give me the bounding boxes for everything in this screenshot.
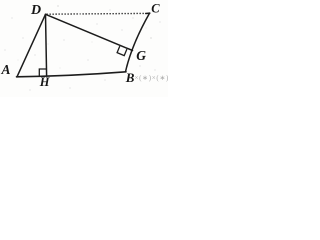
wire: side BC (right, through G) [126,13,150,72]
wire: scan speckle noise [5,5,161,90]
wire: solid corner bit of DC at C [146,12,150,14]
node H right-angle mark [39,69,46,76]
wire: side AB (bottom) [17,72,127,77]
svg-text:B: B [125,70,135,85]
svg-text:H: H [39,75,51,89]
node G right-angle mark [117,46,127,56]
wire: side DC (top, dotted) [47,12,147,15]
svg-text:G: G [136,48,146,63]
svg-text:A: A [1,62,11,77]
svg-text:×(∗)×(∗)≥|≈: ×(∗)×(∗)≥|≈ [135,74,169,82]
svg-text:D: D [30,3,41,18]
wire: altitude DG [46,14,133,50]
svg-text:C: C [151,2,160,16]
wire: altitude DH [46,14,47,75]
wire: side AD (left) [17,14,46,77]
